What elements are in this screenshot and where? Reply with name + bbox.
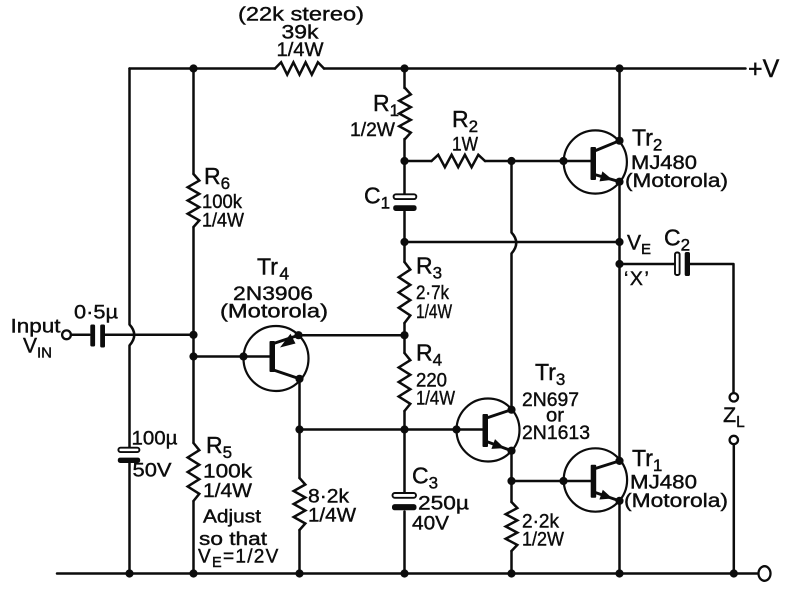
transistor Tr4 PNP 2N3906: [244, 326, 309, 391]
input terminal: [62, 330, 71, 339]
wire bias divider column R6/R5: [192, 69, 195, 574]
svg-text:VE=1/2V: VE=1/2V: [198, 547, 280, 572]
label 0 rail terminal: [759, 566, 771, 581]
svg-text:0·5µ: 0·5µ: [74, 302, 118, 324]
node Tr2 base: [559, 157, 567, 165]
svg-text:1/2W: 1/2W: [522, 529, 565, 551]
note adjust so that VE=1/2V: [198, 506, 280, 572]
node 100u cap at 0 rail: [125, 569, 133, 577]
label R2 1W: [452, 106, 479, 156]
svg-text:‘X’: ‘X’: [624, 268, 650, 290]
svg-text:+V: +V: [748, 55, 780, 83]
node input at divider: [189, 331, 197, 339]
wire Tr4 base: [194, 355, 244, 358]
label Tr4 2N3906 (Motorola): [220, 254, 328, 323]
node X output: [615, 260, 623, 268]
wire Tr1 base: [512, 480, 564, 483]
node C3 at 0 rail: [400, 569, 408, 577]
label Input VIN: [11, 316, 62, 362]
node Tr3 base: [452, 425, 460, 433]
svg-text:100µ: 100µ: [132, 428, 178, 450]
label R4 220 1/4W: [416, 340, 456, 410]
resistor R6: [188, 174, 200, 227]
svg-text:(Motorola): (Motorola): [624, 490, 728, 512]
svg-text:250µ: 250µ: [418, 493, 469, 515]
transistor Tr2 NPN MJ480: [564, 130, 627, 193]
svg-text:1/4W: 1/4W: [277, 39, 325, 61]
resistor R2: [405, 155, 564, 167]
label 100u 50V values: [132, 428, 178, 482]
resistor R5: [188, 443, 200, 501]
node C1 bottom / R3 top: [400, 238, 408, 246]
svg-text:40V: 40V: [412, 513, 449, 535]
node 2.2k at 0 rail: [507, 569, 515, 577]
wire Tr1 emitter to 0 rail: [618, 501, 621, 574]
wire left rail branch (down from +V corner, hops input wire): [130, 69, 135, 574]
node Tr1 base at circle: [559, 477, 567, 485]
wire Tr2 emitter down VE / X / Tr1 collector: [618, 182, 621, 461]
svg-text:1W: 1W: [452, 134, 479, 156]
svg-text:1/4W: 1/4W: [308, 505, 357, 527]
svg-text:50V: 50V: [133, 460, 172, 482]
load ZL terminal top: [730, 393, 738, 401]
label R3 2.7k 1/4W: [416, 253, 452, 324]
wire top +V supply rail: [130, 67, 746, 70]
node divider to base: [189, 352, 197, 360]
svg-text:1/4W: 1/4W: [416, 301, 452, 323]
label C3 250u 40V: [412, 463, 469, 535]
node 8.2k at 0 rail: [295, 569, 303, 577]
wire X node to C2: [620, 263, 675, 266]
capacitor C3 250u 40V electrolytic: [392, 430, 417, 574]
node Tr3 emitter / Tr1 base: [507, 477, 515, 485]
svg-text:1/2W: 1/2W: [350, 119, 396, 141]
node R4/C3 junction: [400, 425, 408, 433]
resistor 8.2k: [294, 430, 306, 574]
resistor R3: [399, 242, 411, 335]
node Tr4 base at circle: [239, 352, 247, 360]
resistor R1: [399, 69, 411, 162]
resistor 39k (22k stereo) in +V rail: [275, 62, 324, 74]
svg-text:1/4W: 1/4W: [416, 388, 456, 410]
label Tr1 MJ480 (Motorola): [624, 445, 728, 512]
capacitor 0.5u input coupling: [90, 325, 105, 348]
wire coupling cap to bias node (crosses under left rail): [105, 334, 194, 337]
node VE: [615, 238, 623, 246]
node top rail junction at R6: [189, 64, 197, 72]
load ZL terminal bottom: [730, 436, 738, 444]
svg-text:Adjust: Adjust: [203, 506, 261, 527]
node R3/R4 junction (Tr4 emitter): [400, 331, 408, 339]
capacitor C1 electrolytic: [393, 161, 416, 242]
label Tr2 MJ480 (Motorola): [625, 125, 728, 193]
wire Tr4 collector down: [298, 379, 301, 430]
capacitor 100u 50V electrolytic: [118, 448, 140, 463]
resistor R4: [399, 335, 411, 429]
wire C2 to ZL column: [690, 264, 734, 393]
wire Tr3 collector line (hops over VE wire): [512, 161, 517, 410]
svg-text:1/4W: 1/4W: [203, 480, 253, 502]
resistor 2.2k: [506, 481, 518, 574]
svg-text:(Motorola): (Motorola): [220, 301, 328, 323]
label 8.2k 1/4W: [308, 486, 357, 527]
wire ZL bottom to 0 rail: [733, 444, 736, 573]
node ZL at 0 rail: [730, 569, 738, 577]
svg-text:2N1613: 2N1613: [522, 422, 590, 444]
svg-text:(Motorola): (Motorola): [625, 170, 728, 192]
node top rail junction at R1: [400, 64, 408, 72]
node R1/C1/R2 junction: [400, 157, 408, 165]
label Tr3 2N697 or 2N1613: [522, 359, 590, 444]
wire bottom 0V rail: [57, 572, 757, 575]
node R2 to Tr3 collector line: [507, 157, 515, 165]
label +V net: [748, 55, 780, 83]
wire Tr4 emitter to R3/R4 junction: [299, 334, 405, 337]
capacitor C2 output coupling: [675, 252, 690, 276]
node top rail junction at Tr2 collector: [615, 64, 623, 72]
label R6 100k 1/4W: [202, 163, 245, 232]
label R5 100k 1/4W: [203, 432, 253, 502]
wire Tr3 emitter down to 2.2k node: [510, 451, 513, 481]
label R1 1/2W: [350, 90, 399, 141]
wire Tr4 collector node to Tr3 base: [300, 428, 457, 431]
svg-text:1/4W: 1/4W: [202, 210, 245, 232]
wire input to coupling cap: [71, 334, 90, 337]
node R5 at 0 rail: [189, 569, 197, 577]
node 8.2k top: [295, 425, 303, 433]
wire Tr2 collector to +V: [618, 69, 621, 141]
node Tr1 emitter at 0 rail: [615, 569, 623, 577]
transistor Tr1 NPN MJ480: [564, 448, 628, 511]
transistor Tr3 NPN 2N697: [457, 399, 520, 462]
label 2.2k 1/2W: [522, 511, 565, 551]
label 39k resistor values (22k stereo) 39k 1/4W: [238, 4, 364, 62]
wire VE feedback (C1 bottom to VE node): [405, 241, 620, 244]
